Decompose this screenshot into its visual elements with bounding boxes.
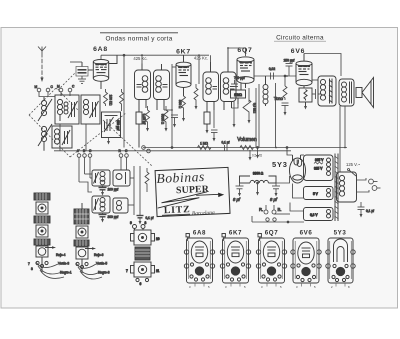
- bus cap 0,1: [221, 141, 229, 151]
- svg-text:0,02: 0,02: [269, 67, 275, 71]
- cap under can3: [211, 130, 218, 142]
- svg-text:M: M: [57, 85, 60, 89]
- center ground: [256, 182, 259, 195]
- svg-text:8: 8: [145, 221, 147, 225]
- tube 5Y3: [290, 155, 306, 183]
- resistor R2 under 6A8: [120, 89, 124, 111]
- antenna terminals M C: [35, 85, 56, 97]
- wire can4 to 6Q7 top: [228, 48, 246, 56]
- filter cap 8uf left: [233, 183, 244, 202]
- svg-text:11: 11: [156, 269, 160, 273]
- bobbin band hatching: [37, 193, 89, 246]
- resistor under can2 left: [142, 106, 150, 132]
- tube 6K7: [176, 55, 191, 96]
- svg-text:7: 7: [28, 262, 30, 266]
- cap 750uuf: [231, 76, 245, 87]
- resistor 0,5M under 6Q7: [243, 88, 257, 124]
- socket 6Q7: [256, 234, 286, 284]
- band coil box 3: [52, 126, 72, 148]
- wire 5Y3 to choke: [276, 176, 290, 183]
- svg-text:5000 Ω: 5000 Ω: [161, 114, 165, 125]
- svg-text:300 Ω: 300 Ω: [178, 100, 182, 109]
- svg-text:6V6: 6V6: [291, 48, 306, 55]
- socket 6V6: [291, 238, 321, 283]
- socket 6K7: [220, 234, 250, 284]
- svg-text:10: 10: [156, 237, 160, 241]
- speaker: [356, 78, 374, 108]
- R B terminals: [259, 205, 281, 221]
- bobbin 3: [126, 221, 160, 286]
- title Ondas normal y corta: [100, 33, 178, 43]
- IF wire 425 Kc: [101, 54, 209, 147]
- svg-text:9: 9: [130, 221, 132, 225]
- cap 250uuf: [284, 59, 295, 77]
- svg-text:R.: R.: [259, 207, 263, 212]
- svg-text:Negro-8: Negro-8: [98, 271, 110, 275]
- bobbin 2 arcs: [76, 253, 110, 279]
- resistor box under can1: [136, 112, 142, 148]
- power transformer 6,3V box: [304, 208, 334, 221]
- resistor under 6A8: [104, 89, 113, 106]
- power transformer 5V box: [304, 187, 334, 200]
- svg-text:6: 6: [140, 282, 142, 286]
- wire can4 to 6Q7 grid: [232, 104, 239, 108]
- svg-text:300 μμf: 300 μμf: [108, 215, 119, 219]
- svg-text:1 MΩ: 1 MΩ: [234, 93, 242, 97]
- band coil box 1: [55, 95, 79, 124]
- svg-text:8 μf: 8 μf: [233, 197, 241, 202]
- osc coil box TR: [113, 170, 130, 186]
- grid cap C1: [76, 62, 93, 76]
- band coil box 2: [81, 95, 100, 124]
- svg-text:3800 Ω: 3800 Ω: [253, 172, 264, 176]
- bus terminals: [142, 146, 151, 153]
- svg-text:7: 7: [126, 269, 128, 273]
- svg-text:0,1 μf: 0,1 μf: [221, 141, 229, 145]
- wire detector drop: [275, 83, 277, 148]
- Tono pot: [274, 76, 289, 116]
- B+ bus: [54, 148, 347, 151]
- terminals 3 4: [57, 85, 75, 97]
- 6Q7 twin vertical leads: [256, 84, 259, 148]
- resistor under can2 right: [161, 106, 169, 132]
- dashed gang linkage: [29, 72, 152, 166]
- power transformer HV box: [304, 155, 334, 181]
- svg-text:Volumen: Volumen: [237, 137, 257, 143]
- cap under TL: [99, 186, 119, 196]
- 5Y3 left wires: [252, 184, 304, 223]
- IF can 3: [203, 62, 219, 112]
- coupling wire 6Q7-6V6: [254, 67, 296, 80]
- tube 6Q7: [237, 57, 254, 90]
- vertical feed line mid: [198, 55, 200, 84]
- cap under can2: [171, 115, 178, 128]
- svg-text:5Y3: 5Y3: [334, 230, 347, 237]
- cap under BL: [99, 213, 119, 223]
- padder box: [102, 112, 121, 138]
- output transformer: [318, 76, 336, 106]
- phono terminals row: [77, 149, 92, 192]
- svg-text:0,05 Mf: 0,05 Mf: [142, 114, 146, 125]
- svg-text:6A8: 6A8: [93, 46, 108, 53]
- logo flash: [157, 192, 208, 208]
- svg-text:Circuito alterna: Circuito alterna: [276, 34, 324, 41]
- osc coil box BL: [92, 196, 110, 213]
- bobbin 1 arcs: [28, 253, 72, 278]
- svg-text:Rojo-6: Rojo-6: [94, 253, 104, 257]
- IF can 4: [221, 48, 237, 110]
- wire junction can3: [210, 55, 212, 62]
- wire terminal leads: [0, 0, 1, 1]
- svg-text:M: M: [35, 85, 38, 89]
- svg-text:400 μμf: 400 μμf: [116, 120, 120, 131]
- tube 6V6: [296, 54, 312, 89]
- wire grid bus: [70, 61, 82, 63]
- bobbin 1: [34, 193, 56, 272]
- svg-text:8 μf: 8 μf: [270, 197, 278, 202]
- resistor box under can3: [204, 112, 210, 134]
- IF can 2: [154, 64, 170, 110]
- line cap: [358, 202, 375, 218]
- svg-text:6Q7: 6Q7: [265, 230, 279, 237]
- svg-text:SUPER: SUPER: [176, 184, 210, 196]
- cap under osc wires: [137, 216, 154, 225]
- svg-text:8: 8: [31, 267, 33, 271]
- svg-text:6V6: 6V6: [300, 230, 313, 237]
- ground padder: [107, 138, 110, 145]
- svg-text:425 Kc.: 425 Kc.: [194, 56, 208, 61]
- bobbin 2: [74, 203, 96, 273]
- mains plug: [357, 178, 381, 192]
- AVC vertical wire: [171, 64, 176, 148]
- B feed arrow from bus: [256, 147, 259, 159]
- wire can4 right lead: [233, 102, 236, 128]
- filter choke 3800: [240, 172, 277, 184]
- junction dots: [171, 47, 346, 148]
- 6V6 cathode box: [299, 88, 312, 110]
- antenna: [38, 47, 46, 83]
- ground below C1: [78, 76, 86, 83]
- svg-text:6K7: 6K7: [229, 230, 242, 237]
- svg-text:250 μμf: 250 μμf: [284, 59, 295, 63]
- svg-text:125 V.~: 125 V.~: [346, 162, 361, 167]
- svg-text:Negro-1: Negro-1: [60, 271, 72, 275]
- resistor under 6K7: [178, 96, 186, 122]
- resistor right of 6K7: [194, 84, 198, 110]
- tube 6A8: [93, 55, 117, 89]
- socket 5Y3: [326, 238, 355, 283]
- svg-text:B: B: [83, 149, 85, 153]
- osc coil box BR: [113, 198, 128, 213]
- filter cap 8uf right: [270, 183, 280, 202]
- transformer core: [335, 154, 339, 222]
- wire box1 to bus: [59, 124, 61, 151]
- bus resistor 1M: [198, 142, 211, 150]
- svg-text:Rojo-4: Rojo-4: [56, 253, 66, 257]
- svg-text:Barcelona: Barcelona: [192, 210, 215, 217]
- cathode bypass cap: [312, 89, 321, 103]
- svg-text:B.: B.: [278, 207, 282, 212]
- resistor box 1M under 6Q7: [231, 90, 246, 104]
- svg-text:425 Kc.: 425 Kc.: [133, 56, 147, 61]
- svg-text:6A8: 6A8: [193, 230, 206, 237]
- svg-text:750 μμf: 750 μμf: [234, 76, 245, 80]
- svg-text:6: 6: [77, 149, 79, 153]
- wire can2 to 6K7 grid: [164, 109, 172, 111]
- mains switch: [348, 169, 357, 177]
- socket inner walls and pin stubs: [189, 241, 352, 287]
- svg-text:325 V: 325 V: [314, 167, 323, 171]
- speaker transformer: [339, 79, 354, 106]
- pin number specks: [189, 285, 350, 289]
- wire plate 6A8 to can1: [141, 55, 143, 63]
- 5Y3 top wires: [286, 147, 304, 155]
- svg-text:5Y3: 5Y3: [272, 160, 288, 169]
- mains primary coil: [337, 172, 357, 202]
- title Circuito alterna: [274, 34, 326, 41]
- osc resistor column: [145, 168, 149, 192]
- svg-text:Verde-3: Verde-3: [58, 262, 69, 266]
- antenna coil L1: [38, 97, 52, 151]
- svg-text:Verde-5: Verde-5: [96, 262, 107, 266]
- AF choke: [263, 76, 268, 106]
- osc coil box TL: [92, 170, 110, 186]
- IF can 1: [135, 54, 151, 112]
- B+ dropper wire: [340, 106, 345, 172]
- svg-text:6,3 V: 6,3 V: [310, 213, 318, 217]
- heater bus: [252, 221, 304, 223]
- bobbin 3 band stripes: [135, 250, 150, 256]
- wire can3 lead down: [213, 110, 215, 128]
- svg-text:Ondas normal y corta: Ondas normal y corta: [105, 35, 172, 42]
- terminals R C: [119, 149, 129, 170]
- logo box: [155, 167, 230, 218]
- svg-text:1 MΩ: 1 MΩ: [200, 142, 208, 146]
- wire screen 6V6 to OT: [312, 79, 318, 81]
- wire box2 to bus: [85, 124, 87, 151]
- svg-text:6Q7: 6Q7: [237, 47, 252, 54]
- osc vertical wires: [128, 166, 140, 215]
- socket 6A8: [184, 234, 214, 284]
- svg-text:100 KΩ: 100 KΩ: [109, 95, 113, 106]
- svg-text:100 μμf: 100 μμf: [108, 188, 119, 192]
- svg-text:0,1 μf: 0,1 μf: [146, 216, 154, 220]
- Volumen pot: [237, 137, 263, 161]
- svg-text:0,1 μf: 0,1 μf: [366, 209, 374, 213]
- svg-text:325 V: 325 V: [315, 158, 324, 162]
- logo arrow: [196, 194, 219, 195]
- svg-text:6K7: 6K7: [176, 49, 191, 56]
- 6V6 plate wire to OT: [304, 54, 341, 77]
